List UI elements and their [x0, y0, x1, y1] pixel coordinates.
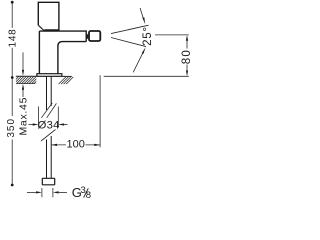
supply pipe upper segment	[47, 77, 52, 110]
dim dot top (handle level)	[11, 1, 14, 4]
dimension O34 left arrow	[29, 124, 35, 126]
svg-text:Ø34: Ø34	[38, 119, 60, 131]
dimension O34 extension ticks	[39, 107, 59, 128]
dimension 80 line	[186, 40, 188, 71]
dimension 80 down arrow	[186, 71, 188, 77]
faucet body top line	[39, 30, 86, 32]
svg-text:8: 8	[86, 190, 91, 200]
svg-text:350: 350	[6, 118, 17, 138]
dimension 100 right arrow	[94, 144, 100, 146]
svg-text:Max.45: Max.45	[18, 97, 30, 136]
counter slab left (hatched cross-section)	[9, 76, 44, 84]
faucet spout arm bottom with fillet and column right edge	[58, 42, 86, 74]
spray line upper	[111, 25, 149, 33]
dimension Max.45 line lower with up arrow	[22, 90, 24, 98]
faucet handle lever	[38, 2, 59, 31]
counter reference line right	[104, 75, 189, 77]
dimension 148/350 vertical line	[11, 2, 13, 185]
dimension 25deg upper leader with arrow	[140, 8, 143, 18]
spout joint neck	[86, 34, 89, 38]
spout arm right end edge	[85, 30, 87, 41]
spout level reference line	[155, 34, 189, 36]
dimension 100 right extension line	[99, 75, 101, 147]
dimension G3/8 line left with arrow	[27, 191, 36, 193]
dimension G3/8 line right with arrow	[59, 191, 67, 193]
aerator tip	[89, 31, 100, 41]
dim dot counter level	[11, 76, 14, 79]
dimension Max.45 line upper with down arrow	[22, 52, 24, 70]
pipe break slash C	[41, 130, 56, 142]
pipe break slash A	[41, 103, 52, 118]
dimension G3/8 tick right	[52, 188, 54, 197]
pipe break slash B	[47, 103, 57, 117]
faucet body column left edge	[38, 31, 40, 73]
dim dot hose end level	[11, 184, 14, 187]
spray line lower	[111, 38, 146, 47]
dimension 80 up arrow	[186, 35, 188, 41]
supply pipe lower segment	[47, 136, 52, 178]
svg-text:25°: 25°	[142, 26, 154, 46]
handle diagonal cut	[38, 25, 44, 31]
counter slab right (hatched cross-section)	[59, 77, 74, 84]
svg-text:148: 148	[7, 28, 18, 47]
dimension 100 left arrow	[51, 144, 57, 146]
dimension 100 line	[51, 144, 100, 146]
base flange escutcheon	[37, 74, 62, 77]
G3/8 fitting nut	[42, 178, 54, 185]
dimension 25deg lower leader with arrow	[133, 53, 143, 73]
dimension O34 right arrow	[63, 124, 68, 126]
svg-text:80: 80	[181, 49, 193, 64]
svg-text:100: 100	[67, 139, 85, 151]
dimension G3/8 tick left	[41, 188, 43, 197]
